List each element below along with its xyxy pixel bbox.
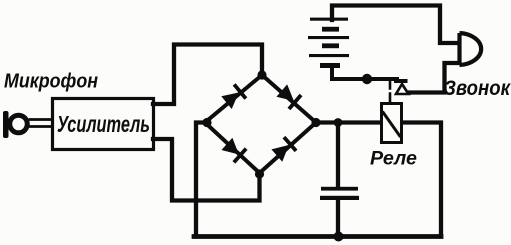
- svg-text:Усилитель: Усилитель: [57, 111, 150, 137]
- svg-text:Звонок: Звонок: [444, 77, 511, 100]
- svg-text:Реле: Реле: [370, 148, 417, 170]
- svg-text:Микрофон: Микрофон: [4, 70, 98, 93]
